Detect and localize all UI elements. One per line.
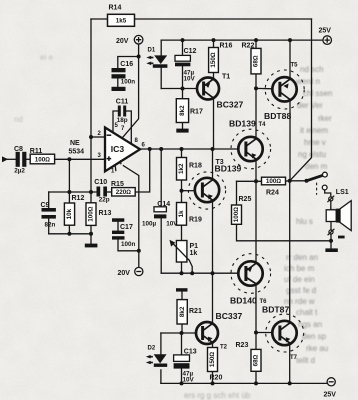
wire plug to speaker	[330, 201, 332, 210]
node T3 base junction	[180, 189, 184, 193]
node P1 bottom junction	[180, 271, 184, 275]
chassis bar beside plug	[338, 236, 345, 239]
wire T5 collector to rail	[289, 40, 291, 80]
resistor R17	[176, 99, 188, 123]
wire C8 to R11	[26, 158, 30, 160]
svg-text:25V: 25V	[319, 28, 332, 35]
svg-text:82n: 82n	[45, 221, 56, 228]
svg-text:C13: C13	[184, 349, 197, 356]
svg-text:100Ω: 100Ω	[88, 206, 95, 222]
wire feedback left vertical to pin2 and R13 node	[90, 19, 92, 192]
wire T5 base	[256, 87, 273, 89]
svg-text:R15: R15	[111, 181, 124, 188]
node output/R15 junction	[148, 147, 152, 151]
svg-text:tellt d: tellt d	[296, 356, 315, 365]
svg-text:ngs an: ngs an	[298, 320, 322, 329]
svg-text:10k: 10k	[66, 208, 73, 219]
svg-text:10V: 10V	[166, 221, 178, 228]
svg-text:C11: C11	[116, 99, 129, 106]
resistor R23	[251, 349, 261, 371]
resistor R22	[251, 48, 261, 74]
wire T4 emitter down	[255, 159, 257, 181]
node R22/T4/T5 junction	[254, 86, 258, 90]
svg-text:25V: 25V	[324, 392, 337, 399]
svg-text:BD139: BD139	[229, 119, 256, 129]
LED D2	[146, 354, 167, 367]
wire plug2 to ground node	[330, 234, 332, 241]
wire P1 bottom lead	[181, 262, 183, 273]
wire pin1 stub	[114, 166, 117, 171]
wire R14 right lead to feedback drop	[135, 18, 312, 20]
wire C13 leads	[181, 333, 183, 383]
svg-text:rke au: rke au	[306, 344, 328, 353]
node R13 bottom junction	[89, 232, 93, 236]
wire pin4 down to 20V-	[123, 166, 138, 268]
svg-text:IC3: IC3	[111, 144, 125, 154]
svg-text:20V: 20V	[118, 270, 131, 277]
svg-text:R21: R21	[189, 308, 202, 315]
wire C17 mid stub	[117, 222, 119, 231]
svg-text:R19: R19	[189, 216, 202, 223]
switch contact top	[323, 172, 328, 177]
node output junction	[288, 179, 292, 183]
wire R12 leads	[68, 192, 70, 234]
svg-text:C9: C9	[41, 202, 50, 209]
wire C16 ground stub	[117, 79, 119, 87]
resistor R18	[177, 158, 187, 181]
wire R20 bottom lead	[212, 372, 214, 384]
svg-text:T5: T5	[291, 63, 299, 69]
svg-text:BDT87: BDT87	[262, 305, 289, 315]
svg-text:2µ2: 2µ2	[14, 167, 25, 174]
transistor T4 (BD139)	[231, 129, 271, 169]
wire C12 leads	[182, 40, 184, 88]
transistor T3 (BD139)	[188, 172, 225, 209]
capacitor C10	[97, 187, 108, 197]
wire R18 leads	[181, 149, 183, 191]
capacitor C8	[16, 152, 27, 167]
svg-text:BD140: BD140	[230, 296, 257, 306]
svg-text:D1: D1	[148, 48, 156, 54]
svg-text:R18: R18	[189, 162, 202, 169]
node T6/T7/R23 junction	[254, 331, 258, 335]
terminal 20V+	[134, 35, 143, 44]
node R12 bottom junction	[67, 232, 71, 236]
switch actuator dashed link	[316, 183, 318, 195]
svg-text:ich be m: ich be m	[284, 264, 315, 273]
ground above R21	[176, 288, 188, 291]
svg-text:C12: C12	[184, 48, 197, 55]
svg-text:R13: R13	[99, 210, 112, 217]
resistor R16	[209, 48, 219, 73]
wire R19 leads	[181, 191, 183, 241]
svg-text:BC337: BC337	[216, 311, 243, 321]
resistor R20	[208, 348, 218, 372]
node T4/T6/R25 junction	[254, 179, 258, 183]
capacitor C13	[174, 355, 190, 362]
node output/R18 junction	[180, 147, 184, 151]
transistor T6 (BD140)	[231, 254, 271, 294]
svg-text:NE: NE	[70, 140, 80, 147]
svg-text:22p: 22p	[99, 196, 110, 203]
wire pin2	[91, 136, 105, 138]
wire T3 emitter to T2 collector column	[212, 200, 214, 323]
ground below R13	[85, 244, 98, 248]
svg-text:C14: C14	[157, 201, 170, 208]
node rail/C13 junction	[180, 381, 184, 385]
wire C16 branch	[118, 57, 139, 69]
resistor R11	[30, 154, 54, 164]
svg-text:150Ω: 150Ω	[210, 52, 217, 68]
wire T2 base row	[161, 332, 196, 334]
wire T1 base row	[161, 88, 197, 90]
wire T5 emitter to output node	[289, 99, 291, 181]
svg-text:den sp: den sp	[302, 332, 327, 341]
svg-text:R25: R25	[239, 196, 252, 203]
node P1 wiper junction	[190, 271, 194, 275]
svg-text:100Ω: 100Ω	[35, 156, 51, 163]
resistor R19	[177, 203, 187, 226]
wire C9 bottom lead	[48, 219, 50, 234]
svg-text:it einem: it einem	[300, 126, 328, 135]
resistor R24	[262, 177, 286, 185]
capacitor C14	[154, 207, 166, 212]
node 20V+ branch junction	[137, 55, 141, 59]
resistor R12	[64, 203, 74, 225]
svg-text:100n: 100n	[121, 79, 136, 86]
svg-text:R20: R20	[210, 374, 223, 381]
svg-text:8k2: 8k2	[179, 306, 186, 317]
node output/C14 junction	[159, 147, 163, 151]
wire feedback right vertical and diagonal to output node	[290, 19, 312, 181]
svg-text:P1: P1	[190, 243, 199, 250]
wire R17 leads	[182, 89, 184, 129]
ghost print-through text on right margin	[14, 53, 337, 400]
ground below C16	[112, 87, 126, 91]
node R12 top junction	[67, 190, 71, 194]
svg-text:1k2: 1k2	[178, 163, 185, 174]
input terminal	[2, 156, 8, 162]
svg-text:hlu s: hlu s	[296, 217, 313, 226]
svg-text:R23: R23	[236, 342, 249, 349]
svg-text:den m: den m	[305, 162, 328, 171]
wire bottom -25V rail	[161, 382, 327, 384]
svg-text:68Ω: 68Ω	[253, 55, 260, 67]
svg-text:D2: D2	[148, 346, 156, 352]
svg-text:BC327: BC327	[217, 100, 244, 110]
resistor R21	[177, 300, 187, 324]
svg-text:R12: R12	[72, 195, 85, 202]
svg-text:R16: R16	[220, 42, 233, 49]
svg-text:ers rg g sch eht üb: ers rg g sch eht üb	[184, 391, 251, 400]
ground below speaker	[325, 248, 337, 252]
node C13 top junction	[180, 331, 184, 335]
node C17/V- junction	[137, 249, 141, 253]
svg-text:8k2: 8k2	[179, 105, 186, 116]
wire C10 to R15	[107, 191, 112, 193]
terminal 25V- bottom right	[327, 378, 335, 386]
wire T3 base	[182, 190, 196, 192]
svg-text:rr den an: rr den an	[286, 253, 318, 262]
svg-text:100Ω: 100Ω	[233, 207, 240, 223]
wire T6 collector up	[255, 181, 257, 263]
wire 20V+ down to pin7	[123, 44, 139, 138]
wire D1 leads	[160, 40, 162, 88]
svg-text:T7: T7	[290, 355, 298, 361]
svg-text:hme v: hme v	[304, 138, 326, 147]
wire D2 leads	[160, 333, 162, 383]
wire top 25V rail	[161, 39, 323, 41]
wire C11 left lead to pin5	[113, 111, 118, 132]
switch contact bottom	[322, 185, 327, 190]
node bias row/T2-T3 junction	[211, 271, 215, 275]
capacitor C11	[118, 106, 126, 117]
wire R11 to pin3	[55, 158, 105, 160]
svg-text:R11: R11	[30, 148, 43, 155]
node R13/C10 top junction	[89, 190, 93, 194]
wire T7 base row	[256, 332, 273, 334]
wire emitter node row	[237, 180, 262, 182]
node rail/R16 junction	[212, 38, 216, 42]
op-amp IC3	[105, 128, 140, 172]
wire ground row y234	[49, 233, 91, 235]
svg-text:1k5: 1k5	[116, 18, 127, 25]
wire C14 bottom to bias row	[160, 218, 162, 273]
wire T6 emitter down	[255, 284, 257, 333]
svg-text:220Ω: 220Ω	[116, 189, 132, 196]
svg-text:der Ver: der Ver	[297, 101, 323, 110]
wire P1 wiper tail	[189, 261, 192, 274]
plug contact upper	[327, 196, 334, 202]
wire output down to C14	[160, 149, 162, 207]
svg-text:18p: 18p	[117, 117, 128, 124]
transistor T5 (BDT88)	[265, 70, 304, 109]
svg-text:nd: nd	[14, 115, 23, 124]
wire R23 leads	[255, 333, 257, 384]
capacitor C9	[42, 208, 56, 219]
svg-text:5534: 5534	[69, 149, 85, 156]
resistor R15	[112, 188, 136, 196]
wire R13 leads	[90, 192, 92, 244]
resistor R13	[86, 203, 96, 226]
wire output node to switch pivot	[290, 180, 307, 182]
ground below R17	[176, 129, 188, 133]
capacitor C16	[112, 68, 126, 79]
svg-text:68Ω: 68Ω	[253, 354, 260, 366]
wire bias row y273	[161, 272, 238, 274]
svg-text:100n: 100n	[121, 241, 136, 248]
LED D1	[146, 55, 167, 67]
svg-text:R24: R24	[266, 189, 279, 196]
terminal 20V-	[135, 267, 143, 275]
terminal 25V+ top right	[323, 36, 332, 45]
node rail/T7 junction	[288, 381, 292, 385]
wire R25 top lead	[236, 181, 238, 205]
wire C9 top lead	[48, 192, 50, 208]
svg-text:gsst fe d: gsst fe d	[286, 286, 316, 295]
svg-text:chalt t: chalt t	[296, 308, 318, 317]
svg-text:C16: C16	[120, 61, 133, 68]
node T1 base junction	[181, 87, 185, 91]
wire T4 collector up	[255, 88, 257, 138]
wire R14 left lead	[91, 18, 108, 20]
plug contact lower	[328, 229, 335, 235]
wire T1 collector down to output row	[213, 98, 215, 149]
svg-text:150Ω: 150Ω	[209, 352, 216, 368]
wire C11 right lead to pin8	[126, 111, 131, 144]
wire T7 collector to output node	[289, 181, 291, 323]
svg-text:C10: C10	[94, 179, 107, 186]
wire T2 emitter to R20	[212, 343, 214, 348]
svg-text:T1: T1	[222, 74, 230, 81]
capacitor C17	[112, 218, 125, 239]
wire output row	[140, 148, 239, 150]
wire R16 leads	[213, 40, 215, 79]
wire R21 leads	[181, 291, 183, 333]
potentiometer P1	[169, 240, 189, 262]
wire R25 bottom to zobel row	[237, 224, 332, 241]
capacitor C12	[175, 55, 190, 61]
svg-text:ei e: ei e	[40, 53, 53, 62]
svg-text:BD139: BD139	[215, 164, 242, 174]
svg-text:1k: 1k	[190, 250, 198, 257]
svg-text:chl ssen: chl ssen	[303, 89, 332, 98]
wire ground node stub	[330, 241, 332, 249]
svg-text:werd n: werd n	[295, 77, 320, 86]
svg-text:rker: rker	[318, 114, 332, 123]
svg-text:R22: R22	[242, 42, 255, 49]
svg-text:R17: R17	[190, 109, 203, 116]
wire T3 collector up	[212, 149, 214, 180]
wire T7 emitter to bottom rail	[289, 343, 291, 383]
wire input node down to R12	[68, 159, 70, 192]
svg-text:100µ: 100µ	[142, 221, 157, 228]
node rail/C12 junction	[181, 38, 185, 42]
wire R22 leads	[255, 40, 257, 88]
svg-text:T2: T2	[220, 345, 228, 351]
svg-text:C8: C8	[14, 146, 23, 153]
resistor R14	[108, 14, 135, 26]
switch pivot	[305, 179, 309, 183]
svg-text:uf de ein: uf de ein	[284, 275, 315, 284]
transistor T7 (BDT87)	[266, 314, 304, 352]
node rail/R20 junction	[211, 381, 215, 385]
wire node row y192	[49, 191, 97, 193]
loudspeaker LS1	[326, 201, 351, 231]
node speaker ground junction	[329, 239, 333, 243]
node pin2/R14 junction	[89, 135, 93, 139]
svg-text:10V: 10V	[184, 76, 196, 83]
svg-text:LS1: LS1	[336, 189, 349, 196]
svg-text:100Ω: 100Ω	[266, 178, 282, 185]
node rail/R22 junction	[254, 38, 258, 42]
wire R24 to output node	[286, 180, 290, 182]
svg-text:BDT88: BDT88	[264, 111, 291, 121]
wire switch lower contact to plug	[325, 190, 331, 197]
node input junction	[67, 157, 71, 161]
svg-text:R14: R14	[109, 5, 122, 12]
resistor R25	[232, 205, 242, 224]
svg-text:C17: C17	[120, 224, 133, 231]
node rail/R23 junction	[254, 381, 258, 385]
wire input to C8	[7, 158, 16, 160]
transistor T1 (BC327)	[197, 78, 219, 100]
svg-text:1k: 1k	[178, 210, 185, 218]
switch lever	[307, 175, 323, 180]
wire C17 bottom to V- line	[118, 240, 139, 251]
svg-text:T4: T4	[259, 122, 267, 128]
node output/T1-T3 junction	[211, 147, 215, 151]
wire speaker bottom	[330, 222, 332, 231]
transistor T2 (BC337)	[196, 322, 218, 344]
node rail/T5 junction	[288, 38, 292, 42]
svg-text:20V: 20V	[116, 38, 129, 45]
svg-text:10V: 10V	[183, 377, 195, 384]
wire R15 right to output	[135, 149, 150, 192]
